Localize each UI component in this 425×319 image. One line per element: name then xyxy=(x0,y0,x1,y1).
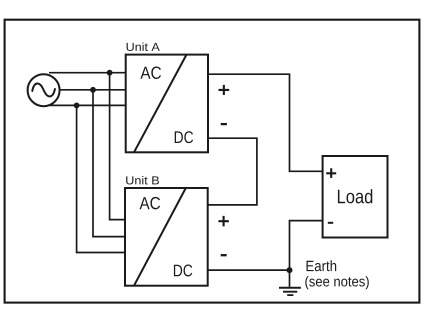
label AC (Unit A) xyxy=(140,67,161,79)
label Load xyxy=(338,189,372,203)
label (see notes) xyxy=(305,276,369,289)
label DC (Unit A) xyxy=(175,131,193,143)
wire Load - to earth node xyxy=(290,221,323,271)
label DC (Unit B) xyxy=(174,265,192,277)
wire phase 1 branch to Unit B xyxy=(110,73,126,220)
wire phase 3 (bottom) source to Unit A xyxy=(49,104,126,106)
label Unit A xyxy=(127,42,160,51)
junction node on phase 3 xyxy=(74,103,80,109)
junction node on phase 1 xyxy=(107,70,113,76)
wire earth node to ground xyxy=(289,270,291,287)
earth ground symbol xyxy=(279,288,301,295)
label Unit B xyxy=(126,176,159,185)
polarity label - (Unit B output) xyxy=(221,254,227,256)
polarity label - (Unit A output) xyxy=(221,123,227,125)
ac source V1 xyxy=(28,74,60,106)
polarity label + (Unit B output) xyxy=(218,216,229,227)
wire phase 3 branch to Unit B xyxy=(77,105,126,252)
junction node on phase 2 xyxy=(90,87,96,93)
label AC (Unit B) xyxy=(140,197,161,209)
wire Unit A + output to Load + xyxy=(208,74,323,171)
label Earth xyxy=(307,260,337,271)
load block xyxy=(323,156,388,238)
wire phase 2 (middle) source to Unit A xyxy=(59,89,126,91)
junction node at earth xyxy=(287,267,293,273)
converter Unit A xyxy=(126,55,208,153)
converter Unit B xyxy=(125,188,208,286)
polarity label + (Unit A output) xyxy=(219,85,230,95)
wire phase 1 (top) source to Unit A xyxy=(49,72,126,74)
wire Unit B - output to earth node xyxy=(208,269,290,271)
wire phase 2 branch to Unit B xyxy=(93,90,126,237)
polarity label + (Load) xyxy=(326,168,336,178)
polarity label - (Load) xyxy=(328,222,333,224)
wire Unit A - output to Unit B + output (series link) xyxy=(208,138,257,205)
